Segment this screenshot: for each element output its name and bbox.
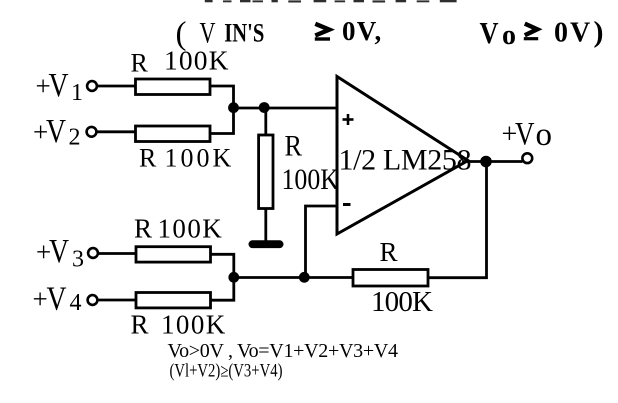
wire R1 to node A bbox=[210, 86, 234, 108]
label R2 value: R 100K bbox=[139, 144, 232, 173]
svg-text:V: V bbox=[47, 281, 67, 318]
svg-text:0V: 0V bbox=[342, 16, 377, 46]
wire node B to op-amp noninverting input bbox=[264, 107, 338, 110]
wire R2 to node A bbox=[210, 108, 234, 134]
svg-text:o: o bbox=[502, 20, 516, 51]
label +V1 bbox=[36, 67, 84, 106]
svg-text:V: V bbox=[46, 113, 66, 150]
svg-text:4: 4 bbox=[70, 290, 82, 316]
wire V4 terminal to R5 bbox=[98, 299, 137, 302]
wire V2 terminal to R2 bbox=[97, 130, 136, 133]
node OUT junction dot bbox=[480, 156, 492, 168]
svg-text:100K: 100K bbox=[282, 163, 340, 196]
resistor R4 (V3 input 100K) bbox=[136, 247, 211, 262]
condition header text: ( V IN'S bbox=[176, 16, 265, 52]
label +V2 bbox=[33, 113, 81, 151]
svg-text:100K: 100K bbox=[371, 286, 433, 318]
svg-text:1/2 LM258: 1/2 LM258 bbox=[339, 143, 472, 176]
terminal +V3 bbox=[88, 248, 98, 258]
svg-text:3: 3 bbox=[72, 247, 84, 273]
svg-text:R: R bbox=[131, 49, 149, 78]
svg-text:R: R bbox=[285, 130, 303, 163]
wire op-amp inverting input to node D bbox=[306, 206, 339, 278]
wire R3 to ground bbox=[264, 209, 267, 243]
svg-text:100K: 100K bbox=[164, 45, 229, 76]
label R5 value: R 100K bbox=[131, 309, 226, 339]
label +Vo bbox=[502, 117, 553, 153]
wire op-amp output to terminal bbox=[462, 160, 523, 163]
svg-text:): ) bbox=[594, 16, 604, 49]
svg-text:IN'S: IN'S bbox=[224, 19, 264, 48]
terminal +V2 bbox=[87, 127, 97, 137]
terminal +V1 bbox=[87, 81, 97, 91]
>= symbol 1 bbox=[315, 24, 330, 39]
svg-text:R: R bbox=[380, 237, 398, 267]
cropped text line at top edge bbox=[205, 0, 457, 3]
label R1 value: R 100K bbox=[131, 45, 229, 78]
label R6 value: R / 100K bbox=[371, 237, 433, 318]
svg-text:1: 1 bbox=[71, 80, 83, 106]
svg-text:+: + bbox=[33, 284, 48, 314]
pin + (noninverting) bbox=[343, 114, 354, 125]
svg-text:100K: 100K bbox=[158, 213, 223, 243]
wire node A to node B bbox=[234, 107, 266, 110]
svg-text:R: R bbox=[134, 213, 152, 243]
label +V4 bbox=[33, 281, 82, 318]
label R3 value: R 100K bbox=[282, 130, 340, 197]
svg-text:(Vl+V2)≥(V3+V4): (Vl+V2)≥(V3+V4) bbox=[170, 362, 283, 382]
svg-text:100K: 100K bbox=[161, 309, 226, 339]
>= symbol 2 bbox=[524, 24, 538, 39]
svg-text:,: , bbox=[375, 16, 382, 46]
node C junction dot bbox=[228, 272, 239, 283]
wire R5 to node C bbox=[211, 278, 234, 301]
svg-text:Vo>0V , Vo=V1+V2+V3+V4: Vo>0V , Vo=V1+V2+V3+V4 bbox=[168, 340, 399, 362]
label R4 value: R 100K bbox=[134, 213, 222, 243]
pin - (inverting) bbox=[343, 203, 351, 206]
svg-text:V: V bbox=[480, 15, 500, 50]
label +V3 bbox=[36, 233, 84, 273]
wire V3 terminal to R4 bbox=[99, 252, 137, 255]
wire node C to R6 bbox=[234, 276, 354, 279]
svg-text:0V: 0V bbox=[554, 18, 592, 49]
resistor R6 (feedback 100K) bbox=[353, 270, 428, 287]
svg-text:V: V bbox=[49, 233, 69, 270]
resistor R2 (V2 input 100K) bbox=[136, 126, 211, 142]
resistor R3 (grounded 100K) bbox=[259, 135, 273, 209]
resistor R5 (V4 input 100K) bbox=[136, 293, 211, 308]
wire node B down to R3 bbox=[264, 108, 267, 136]
node A junction dot bbox=[228, 102, 239, 113]
node B junction dot bbox=[259, 102, 270, 113]
op-amp U1 triangle bbox=[337, 77, 468, 235]
wire output node down to feedback bbox=[428, 162, 487, 278]
svg-text:V: V bbox=[515, 117, 535, 153]
terminal +Vo bbox=[522, 153, 532, 163]
svg-text:R: R bbox=[131, 309, 149, 339]
wire R4 to node C bbox=[211, 254, 234, 277]
node D junction dot bbox=[299, 272, 310, 283]
ground bbox=[249, 240, 284, 248]
svg-text:o: o bbox=[536, 117, 553, 153]
svg-text:R: R bbox=[139, 144, 157, 173]
svg-text:100K: 100K bbox=[165, 144, 232, 173]
svg-text:2: 2 bbox=[69, 125, 81, 151]
resistor R1 (V1 input 100K) bbox=[136, 79, 211, 95]
terminal +V4 bbox=[88, 295, 98, 305]
svg-text:V: V bbox=[49, 67, 69, 104]
Vo text bbox=[480, 15, 517, 51]
wire V1 terminal to R1 bbox=[98, 85, 137, 88]
